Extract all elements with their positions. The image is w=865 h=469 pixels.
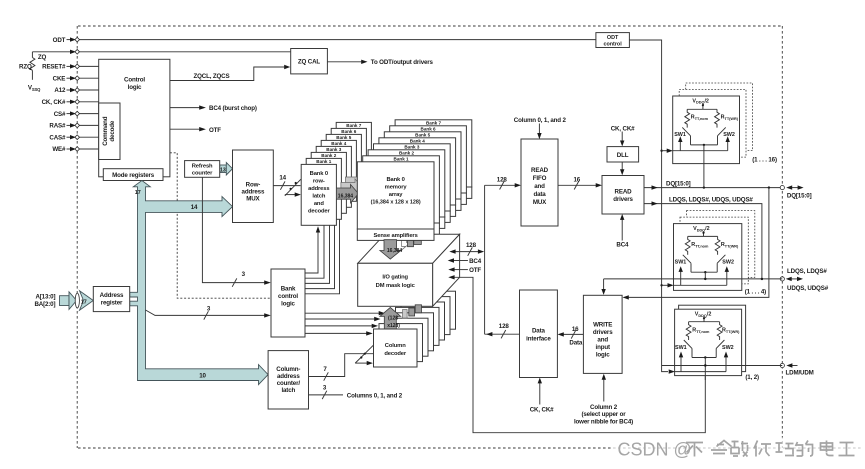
svg-text:interface: interface	[526, 335, 551, 342]
wire SW2 drive arrow DQS	[725, 266, 729, 285]
svg-text:To ODT/output drivers: To ODT/output drivers	[371, 59, 434, 66]
pad arrows DQS bidirectional	[786, 277, 803, 281]
wire CK into data interface	[538, 378, 542, 405]
wire DM tap segment	[704, 358, 706, 381]
svg-text:RZQ: RZQ	[19, 64, 32, 71]
wire DQS read path	[644, 201, 762, 279]
boundary circle LDM	[780, 363, 784, 367]
wire VDDQ feed DM	[689, 317, 720, 322]
bank 6 row latch	[331, 128, 366, 189]
svg-text:CS#: CS#	[54, 111, 66, 118]
svg-text:lower nibble for BC4): lower nibble for BC4)	[574, 418, 633, 425]
svg-text:drivers: drivers	[593, 329, 613, 336]
svg-text:128: 128	[499, 323, 510, 330]
pin RESET#	[42, 64, 99, 71]
svg-text:Bank 7: Bank 7	[346, 123, 362, 128]
wire columns 0 1 2 output	[309, 391, 344, 399]
svg-text:input: input	[596, 344, 610, 351]
wire column select into READ FIFO	[537, 124, 541, 140]
pin CAS#	[49, 134, 98, 141]
svg-text:LDQS, LDQS#: LDQS, LDQS#	[787, 268, 827, 275]
bank 5 memory array	[384, 132, 461, 211]
svg-text:Bank: Bank	[281, 286, 296, 293]
svg-text:logic: logic	[281, 301, 295, 308]
svg-text:ZQ CAL: ZQ CAL	[298, 59, 320, 66]
svg-text:Bank 3: Bank 3	[404, 145, 420, 150]
svg-text:ZQ: ZQ	[38, 54, 47, 61]
svg-text:SW1: SW1	[675, 259, 687, 265]
bank 1 memory array	[363, 156, 440, 235]
bank 1 row latch	[306, 158, 341, 219]
READ FIFO and data MUX box	[521, 139, 558, 226]
wires bank control to row latches	[305, 203, 340, 293]
svg-text:Column 2: Column 2	[590, 404, 618, 411]
svg-text:register: register	[101, 300, 123, 307]
bank 7 memory array	[395, 120, 472, 199]
svg-text:Bank 1: Bank 1	[316, 159, 332, 164]
pin A12	[54, 87, 98, 94]
svg-text:CAS#: CAS#	[49, 134, 66, 141]
svg-text:array: array	[389, 192, 403, 198]
pin CKE	[53, 75, 99, 82]
wire DM pad line	[662, 365, 783, 367]
svg-text:(select upper or: (select upper or	[581, 411, 626, 418]
teal refresh bus 13	[220, 163, 233, 176]
watermark halo	[613, 438, 862, 459]
switch SW2 DM	[716, 340, 724, 358]
WRITE drivers and input logic box	[583, 295, 622, 373]
wire 128 bidir to IO gating	[449, 247, 484, 255]
svg-text:WRITE: WRITE	[593, 322, 612, 329]
wire CK into DLL	[620, 132, 624, 147]
svg-text:(16,384 x 128 x 128): (16,384 x 128 x 128)	[371, 200, 421, 206]
svg-text:10: 10	[199, 372, 206, 379]
svg-text:MUX: MUX	[533, 199, 547, 206]
wire 128 to READ FIFO	[485, 181, 521, 189]
teal main address bus trunk with branches	[130, 181, 268, 385]
bank 2 memory array	[368, 150, 445, 229]
svg-text:Column: Column	[385, 343, 406, 349]
svg-text:Bank 4: Bank 4	[331, 141, 347, 146]
wire column counter 7 to column decoder	[309, 345, 374, 381]
wire ODT entry DQS	[662, 283, 727, 287]
pin RAS#	[49, 123, 98, 130]
row-address MUX box	[233, 150, 274, 223]
bank 7 row latch	[336, 122, 371, 183]
bank 3 memory array	[374, 144, 451, 223]
svg-text:SW2: SW2	[723, 132, 735, 138]
pin WE#	[52, 146, 98, 153]
gray row bus arrow layers	[345, 173, 367, 192]
svg-text:logic: logic	[128, 84, 142, 91]
node DM pad tap	[704, 364, 706, 366]
wire to ODT output drivers	[327, 60, 367, 64]
wire SW1 drive arrow DM	[679, 352, 683, 372]
resistor RZQ	[30, 52, 35, 80]
svg-text:Bank 1: Bank 1	[394, 157, 410, 162]
svg-text:ZQCL, ZQCS: ZQCL, ZQCS	[194, 73, 230, 80]
wire DQ write path to WRITE drivers	[623, 188, 769, 300]
svg-text:BC4 (burst chop): BC4 (burst chop)	[209, 105, 257, 112]
node DQ write branch	[768, 186, 770, 188]
wire DM switch common rail	[692, 356, 716, 358]
svg-text:DQ[15:0]: DQ[15:0]	[666, 181, 691, 188]
svg-text:x128): x128)	[387, 323, 400, 329]
svg-text:ODT: ODT	[607, 35, 619, 41]
column decoder bank 2	[385, 318, 429, 356]
column decoder bank 3	[390, 313, 434, 351]
svg-text:SW2: SW2	[722, 345, 734, 351]
svg-text:Column-: Column-	[276, 366, 300, 373]
svg-text:16,384: 16,384	[338, 193, 354, 199]
column decoder bank 5	[401, 302, 445, 340]
I/O gating DM mask logic 3D box	[358, 234, 460, 306]
svg-text:I/O gating: I/O gating	[382, 275, 408, 281]
wire DQS center tap	[704, 272, 706, 280]
svg-text:and: and	[534, 183, 545, 190]
node DQ center tap	[703, 186, 705, 188]
svg-text:16: 16	[572, 326, 579, 333]
svg-text:address: address	[242, 189, 265, 196]
wire 128 to data interface	[485, 330, 520, 338]
svg-text:Bank 0: Bank 0	[310, 171, 328, 177]
wire DQ read path	[644, 185, 782, 189]
wire SW1 drive arrow DQS	[679, 266, 683, 285]
resistor RTTWR DQ	[715, 109, 720, 127]
bank control logic box	[271, 269, 305, 337]
svg-text:ODT: ODT	[53, 37, 66, 44]
command decode box	[99, 103, 120, 160]
resistor RTTnom DM	[686, 322, 691, 340]
svg-text:Data: Data	[569, 340, 583, 347]
svg-text:READ: READ	[615, 188, 633, 195]
wire 16 READ FIFO to READ drivers	[558, 181, 602, 189]
wire ODT entry DM	[669, 369, 726, 373]
node ODT-DQS branch	[660, 284, 662, 286]
svg-text:row-: row-	[313, 178, 325, 184]
wire refresh counter to bank control 3	[202, 177, 270, 286]
gray 16384 row bus arrow	[336, 184, 358, 203]
svg-text:(128: (128	[388, 316, 398, 322]
DM ODT termination block	[675, 309, 742, 375]
wire DQ center tap	[703, 145, 705, 188]
svg-text:drivers: drivers	[613, 196, 633, 203]
svg-text:memory: memory	[385, 185, 408, 191]
wire ODT line to ODT control	[79, 39, 596, 41]
bank 3 row latch	[316, 146, 351, 207]
bank 4 memory array	[379, 138, 456, 217]
chip boundary dashed right edge	[781, 26, 783, 448]
control logic U1 box	[99, 59, 170, 177]
wire DQ switch common rail	[691, 144, 718, 146]
svg-text:CSDN @: CSDN @	[618, 439, 692, 459]
svg-text:Mode registers: Mode registers	[112, 172, 155, 179]
sense amplifiers box	[357, 229, 434, 240]
wire SW2 drive arrow DQ	[726, 136, 730, 151]
switch SW1 DM	[684, 340, 692, 358]
svg-text:RAS#: RAS#	[49, 123, 66, 130]
boundary circle DQ	[780, 186, 784, 190]
svg-text:16,384: 16,384	[387, 248, 403, 254]
wire BC4 burst chop stub	[170, 105, 206, 109]
ODT control box	[596, 33, 630, 48]
wire ZQ line	[32, 50, 290, 54]
svg-text:A12: A12	[54, 87, 66, 94]
svg-text:address: address	[277, 373, 300, 380]
node DQS read join redraw	[704, 278, 763, 367]
DM ODT termination stack outline	[679, 305, 746, 371]
teal address input bus arrow	[60, 291, 94, 311]
wire DQS pad line	[604, 278, 783, 280]
svg-text:DLL: DLL	[617, 152, 629, 159]
DQS ODT termination stack dashed outlines	[687, 211, 755, 278]
boundary diamonds on pins	[75, 37, 80, 151]
svg-text:Data: Data	[532, 327, 546, 334]
svg-text:Address: Address	[100, 292, 124, 299]
svg-text:OTF: OTF	[209, 127, 221, 134]
watermark CJK glyphs	[686, 441, 855, 457]
svg-text:Bank 0: Bank 0	[386, 177, 404, 183]
wire ZQCL ZQCS to ZQ CAL	[170, 65, 290, 81]
bank 4 row latch	[321, 140, 356, 201]
wire VDDQ feed DQ	[687, 103, 717, 109]
resistor RTTnom DQ	[685, 109, 690, 127]
svg-text:and: and	[314, 201, 325, 207]
wire internal 128 data bus vertical	[484, 185, 486, 334]
svg-text:Column 0, 1, and 2: Column 0, 1, and 2	[514, 117, 567, 124]
READ drivers box	[602, 176, 644, 215]
bank 0 memory array box	[357, 162, 434, 229]
DQ ODT termination stack dashed outlines	[686, 83, 753, 151]
svg-text:UDQS, UDQS#: UDQS, UDQS#	[787, 285, 829, 292]
wires bank control to column decoders	[305, 311, 385, 336]
svg-text:Bank 5: Bank 5	[336, 135, 352, 140]
svg-text:17: 17	[81, 299, 87, 305]
svg-text:decoder: decoder	[384, 351, 407, 357]
svg-text:14: 14	[279, 174, 286, 181]
wire OTF stub	[170, 127, 206, 131]
mode registers box	[103, 169, 163, 181]
svg-text:DM mask logic: DM mask logic	[376, 283, 416, 289]
svg-text:RESET#: RESET#	[42, 64, 66, 71]
svg-text:LDQS, LDQS#, UDQS, UDQS#: LDQS, LDQS#, UDQS, UDQS#	[669, 196, 753, 203]
svg-text:13: 13	[220, 167, 226, 173]
svg-text:(1 . . . 4): (1 . . . 4)	[745, 289, 766, 296]
bank 5 row latch	[326, 134, 361, 195]
gray 128x128 column bus arrow	[380, 307, 401, 330]
column decoder bank 4	[396, 307, 440, 345]
gray tabs other banks down	[408, 240, 414, 247]
refresh counter box	[185, 161, 220, 178]
svg-text:A[13:0]: A[13:0]	[35, 293, 55, 300]
svg-text:control: control	[278, 293, 298, 300]
svg-text:CK, CK#: CK, CK#	[530, 407, 554, 414]
svg-text:Command: Command	[102, 116, 109, 146]
wire DQS pad elbow to WRITE drivers	[601, 279, 605, 295]
bank 2 row latch	[311, 152, 346, 213]
wire address register to bank control 3	[146, 310, 271, 320]
wire ODT control to termination blocks	[629, 40, 668, 372]
svg-text:Bank 2: Bank 2	[399, 151, 415, 156]
svg-text:128: 128	[466, 242, 477, 249]
dashed control line to bank control logic	[170, 153, 271, 298]
resistor RTTWR DM	[717, 322, 722, 340]
wire column 2 into WRITE drivers	[602, 374, 606, 402]
wire VDDQ feed DQS	[688, 231, 718, 236]
column decoder front box	[374, 329, 418, 367]
svg-text:BC4: BC4	[469, 258, 482, 265]
wire BC4 into READ drivers	[620, 214, 624, 241]
svg-text:Columns 0, 1, and 2: Columns 0, 1, and 2	[347, 392, 403, 399]
DLL box	[607, 147, 639, 162]
svg-text:CKE: CKE	[53, 75, 66, 82]
chip boundary dashed top edge	[78, 25, 782, 27]
gray sense bus ghost arrows	[390, 232, 411, 251]
svg-text:128: 128	[497, 177, 508, 184]
wire DQS switch common rail	[691, 271, 717, 273]
svg-text:DQ[15:0]: DQ[15:0]	[787, 193, 812, 200]
column address counter latch box	[268, 351, 308, 409]
chip boundary dashed left edge	[76, 26, 78, 448]
wire ODT pin stub	[67, 37, 77, 41]
svg-text:BC4: BC4	[616, 242, 629, 249]
wire DM mask path from DM pads	[448, 275, 705, 433]
chip boundary dashed bottom edge	[78, 447, 861, 449]
switch SW1 DQS	[683, 255, 691, 272]
Data interface box	[520, 290, 558, 378]
switch SW2 DQ	[718, 127, 726, 144]
wire DLL to READ drivers	[620, 162, 624, 175]
svg-text:Bank 6: Bank 6	[341, 129, 357, 134]
node DQS read join	[761, 278, 763, 280]
switch SW2 DQS	[717, 255, 725, 272]
svg-text:Control: Control	[124, 77, 145, 84]
svg-text:(1, 2): (1, 2)	[745, 374, 759, 381]
wire SW1 drive arrow DQ	[678, 136, 682, 151]
svg-text:Bank 6: Bank 6	[421, 127, 437, 132]
svg-text:CK, CK#: CK, CK#	[611, 125, 635, 132]
node ODT-DQ branch	[660, 150, 662, 152]
svg-text:14: 14	[191, 204, 198, 211]
boundary circle DQS	[780, 277, 784, 281]
svg-text:(1 . . . 16): (1 . . . 16)	[752, 156, 777, 163]
svg-text:decode: decode	[109, 120, 116, 141]
svg-text:17: 17	[135, 190, 141, 196]
svg-text:decoder: decoder	[308, 208, 331, 214]
column decoder bank 6	[407, 297, 451, 335]
switch SW1 DQ	[682, 127, 690, 144]
gray tabs other banks up	[403, 310, 408, 319]
DQS ODT termination block	[674, 224, 742, 291]
wire 16 Data write bus	[558, 330, 584, 338]
bank 0 row-address latch and decoder box	[301, 164, 336, 225]
svg-text:SW2: SW2	[722, 259, 734, 265]
pad arrow LDM input	[786, 363, 797, 367]
svg-text:Bank 5: Bank 5	[415, 133, 431, 138]
svg-text:WE#: WE#	[52, 146, 66, 153]
column decoder bank 1	[379, 324, 423, 362]
svg-text:control: control	[603, 41, 622, 47]
gray 16384 sense bus arrow	[380, 240, 403, 259]
address register box	[93, 287, 129, 312]
svg-text:latch: latch	[281, 387, 295, 394]
svg-text:Bank 7: Bank 7	[426, 121, 442, 126]
svg-text:latch: latch	[312, 193, 326, 199]
pin CK CK#	[42, 99, 99, 106]
DQ ODT termination block	[673, 96, 740, 164]
svg-text:FIFO: FIFO	[533, 175, 547, 182]
wire ODT entry DQ	[662, 149, 728, 153]
svg-text:Bank 2: Bank 2	[321, 153, 337, 158]
svg-text:CK, CK#: CK, CK#	[42, 99, 66, 106]
svg-text:address: address	[308, 186, 329, 192]
pad arrows DQ bidirectional	[786, 185, 803, 189]
svg-text:counter: counter	[192, 171, 213, 177]
resistor RTTnom DQS	[685, 236, 690, 254]
svg-text:Bank 3: Bank 3	[326, 147, 342, 152]
svg-text:Bank 4: Bank 4	[410, 139, 426, 144]
svg-text:READ: READ	[531, 167, 549, 174]
label Column 2 select	[574, 404, 633, 426]
column decoder bank 7	[412, 291, 456, 329]
resistor RTTWR DQS	[715, 236, 720, 254]
wire OTF stub into IO gating	[448, 267, 468, 271]
svg-text:data: data	[533, 191, 546, 198]
svg-text:BA[2:0]: BA[2:0]	[34, 301, 55, 308]
svg-text:Row-: Row-	[246, 182, 261, 189]
wire BC4 stub into IO gating	[448, 258, 468, 262]
svg-text:and: and	[597, 337, 608, 344]
svg-text:MUX: MUX	[246, 196, 260, 203]
wire SW2 drive arrow DM	[724, 352, 728, 372]
svg-text:Sense amplifiers: Sense amplifiers	[374, 233, 418, 239]
svg-text:logic: logic	[596, 352, 610, 359]
wire row MUX 14 to bank latches	[273, 179, 301, 197]
svg-text:16: 16	[574, 177, 581, 184]
ZQ CAL box	[291, 49, 328, 74]
svg-text:LDM/UDM: LDM/UDM	[786, 370, 814, 377]
bank 6 memory array	[390, 126, 467, 205]
svg-text:Refresh: Refresh	[192, 164, 213, 170]
svg-text:counter/: counter/	[277, 380, 301, 387]
svg-text:OTF: OTF	[469, 267, 481, 274]
svg-text:SW1: SW1	[675, 345, 687, 351]
pin CS#	[54, 111, 99, 118]
